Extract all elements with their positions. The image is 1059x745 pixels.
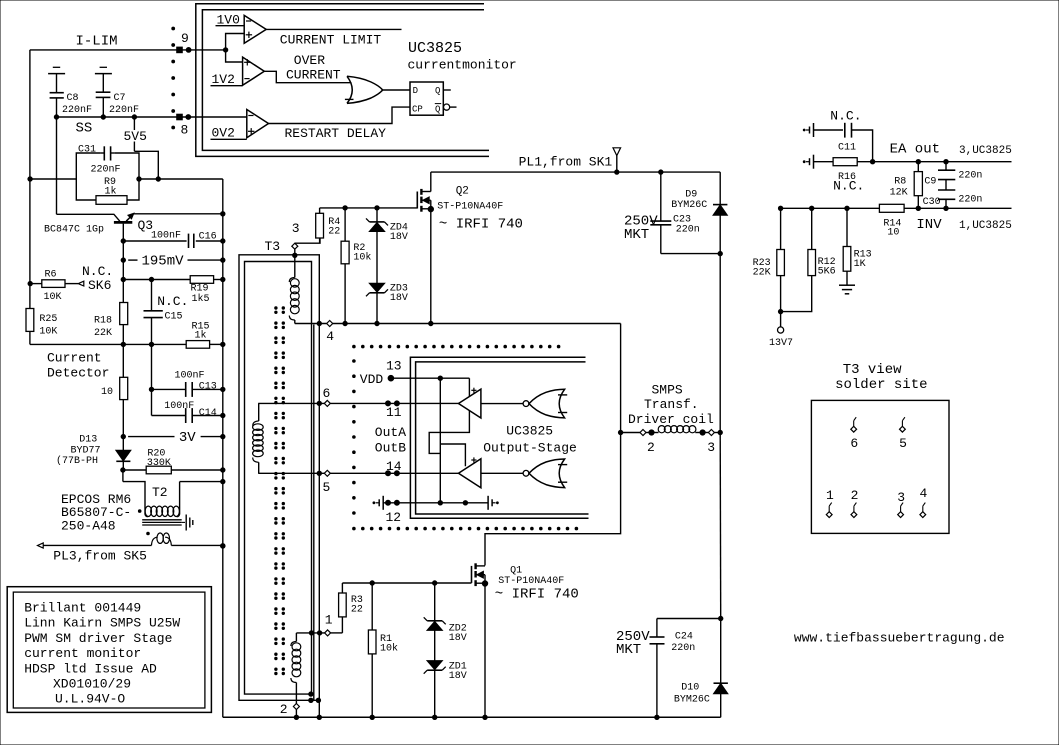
- svg-text:CP: CP: [412, 105, 423, 115]
- transistor Q3 BC847C: [114, 221, 132, 224]
- svg-text:C24: C24: [675, 632, 693, 643]
- svg-text:10k: 10k: [353, 252, 371, 264]
- resistor R15 row y=344: [30, 343, 186, 345]
- resistor R8: [914, 172, 922, 196]
- svg-text:R25: R25: [39, 314, 57, 325]
- svg-text:BYD77: BYD77: [71, 445, 101, 456]
- wire left bus x=222.8 vertical: [222, 179, 224, 717]
- svg-text:2: 2: [280, 702, 288, 717]
- resistor R20 row: [121, 468, 125, 472]
- svg-text:C9: C9: [924, 176, 936, 187]
- or gate U-current-monitor: [347, 76, 352, 103]
- svg-text:10: 10: [101, 387, 113, 398]
- svg-text:13: 13: [386, 359, 402, 374]
- svg-text:C14: C14: [199, 408, 217, 419]
- wire T3 inner return line: [313, 325, 315, 701]
- svg-text:Q: Q: [435, 86, 440, 96]
- T3 pin 1 row: [296, 632, 324, 634]
- svg-text:XD01010/29: XD01010/29: [53, 677, 131, 692]
- svg-text:250-A48: 250-A48: [61, 518, 116, 533]
- capacitor C30: [945, 180, 947, 190]
- resistor R23: [777, 250, 785, 276]
- svg-text:OutB: OutB: [375, 441, 406, 456]
- net 195mV row: [121, 258, 125, 262]
- wire C31 bus right segment: [139, 178, 223, 180]
- box UC3825 output-stage (double border, open right): [410, 357, 588, 518]
- svg-text:ST-P10NA40F: ST-P10NA40F: [437, 202, 503, 213]
- svg-text:18V: 18V: [390, 293, 408, 304]
- svg-text:0V2: 0V2: [212, 126, 235, 141]
- svg-text:12: 12: [386, 510, 402, 525]
- svg-text:~ IRFI 740: ~ IRFI 740: [495, 587, 579, 603]
- comparator 1V2 over-current: [243, 57, 265, 85]
- svg-text:Q2: Q2: [456, 186, 469, 198]
- capacitor C9: [945, 162, 947, 171]
- svg-text:T2: T2: [152, 485, 168, 500]
- resistor R2: [341, 241, 349, 264]
- transformer T2 polarity dots: [138, 510, 141, 513]
- resistor R9: [96, 196, 127, 205]
- zener diode ZD4: [376, 208, 378, 222]
- nor gate A: [523, 401, 529, 407]
- node T3 corner junction dots: [309, 692, 313, 696]
- T3 pin 5 row: [258, 472, 324, 474]
- svg-text:10K: 10K: [39, 326, 57, 337]
- net 3V row: [121, 434, 125, 438]
- svg-text:PWM SM driver Stage: PWM SM driver Stage: [24, 631, 172, 646]
- T3 bottom coil: [295, 633, 297, 642]
- svg-text:195mV: 195mV: [142, 254, 185, 270]
- svg-text:BC847C 1Gp: BC847C 1Gp: [44, 225, 104, 236]
- pin 11 connection dots: [386, 401, 391, 406]
- capacitor C7: [100, 66, 107, 68]
- svg-text:C8: C8: [67, 93, 79, 104]
- resistor R13: [843, 247, 851, 272]
- transformer T2 secondary winding: [152, 537, 158, 545]
- svg-text:1k5: 1k5: [192, 293, 210, 305]
- svg-text:18V: 18V: [449, 671, 467, 682]
- svg-text:R8: R8: [894, 176, 906, 187]
- svg-text:100nF: 100nF: [175, 370, 205, 381]
- svg-text:10: 10: [887, 228, 899, 239]
- pin 14 connection dots: [386, 471, 391, 476]
- svg-text:MKT: MKT: [624, 227, 649, 243]
- svg-text:Brillant 001449: Brillant 001449: [24, 601, 141, 616]
- svg-text:C7: C7: [114, 93, 126, 104]
- svg-text:Driver coil: Driver coil: [628, 412, 714, 427]
- T3 view pin 5: [902, 417, 905, 421]
- svg-text:D: D: [413, 86, 418, 96]
- capacitor C31 plates: [103, 146, 105, 160]
- svg-text:220n: 220n: [671, 643, 695, 654]
- terminal PL1 from SK1: [613, 148, 621, 156]
- svg-text:Q: Q: [435, 105, 440, 115]
- svg-text:22: 22: [328, 227, 340, 238]
- T3 winding pin 3: [292, 243, 298, 249]
- svg-text:5K6: 5K6: [818, 267, 836, 278]
- svg-text:SMPS: SMPS: [652, 382, 683, 397]
- svg-text:INV: INV: [916, 217, 942, 233]
- svg-text:OVER: OVER: [294, 53, 325, 68]
- svg-text:1,UC3825: 1,UC3825: [959, 220, 1012, 232]
- svg-text:D9: D9: [685, 189, 697, 200]
- svg-text:N.C.: N.C.: [830, 108, 861, 123]
- svg-text:PL1,from SK1: PL1,from SK1: [519, 154, 613, 169]
- svg-text:C15: C15: [165, 311, 183, 322]
- resistor R12: [808, 250, 816, 276]
- wire or-gate lower input stub: [345, 98, 354, 100]
- svg-text:6: 6: [850, 436, 858, 451]
- svg-text:18V: 18V: [390, 232, 408, 243]
- svg-text:22: 22: [351, 605, 363, 616]
- svg-text:220nF: 220nF: [109, 105, 139, 116]
- svg-text:Output-Stage: Output-Stage: [483, 441, 577, 456]
- pin VDD connection: [388, 375, 394, 381]
- svg-text:UC3825: UC3825: [408, 40, 462, 57]
- svg-text:4: 4: [920, 486, 928, 501]
- inductor SMPS driver coil: [618, 430, 622, 434]
- capacitor C13 row: [151, 344, 153, 389]
- svg-text:3: 3: [897, 490, 905, 505]
- svg-text:EA out: EA out: [890, 142, 940, 158]
- d-flipflop U-restart: [410, 82, 443, 115]
- svg-text:4: 4: [326, 329, 334, 344]
- zener diode ZD2: [434, 583, 436, 621]
- capacitor C16 row: [123, 240, 186, 242]
- wire C31 bus left segment: [30, 178, 76, 180]
- wire Q1 gate row: [342, 582, 471, 584]
- svg-text:CURRENT: CURRENT: [286, 68, 341, 83]
- connector pin 9 marker: [177, 47, 183, 53]
- capacitor C23: [660, 172, 662, 221]
- transformer T3 outer outline: [239, 255, 319, 701]
- resistor 10 (current sense): [120, 377, 128, 399]
- svg-text:220nF: 220nF: [91, 165, 121, 176]
- svg-text:VDD: VDD: [360, 372, 384, 387]
- svg-text:10k: 10k: [380, 643, 398, 655]
- resistor R25: [26, 309, 34, 332]
- terminal PL3 from SK5: [38, 543, 44, 548]
- svg-text:3V: 3V: [179, 430, 196, 446]
- svg-text:SS: SS: [76, 121, 93, 137]
- box UC3825 currentmonitor (double border, open right): [196, 4, 489, 157]
- dotted connector boundary line: [172, 27, 175, 30]
- wire Q3 emitter to bus: [134, 213, 223, 215]
- diode D9 BYM26C: [719, 172, 721, 205]
- svg-text:3: 3: [707, 440, 715, 455]
- resistor R1: [368, 630, 376, 654]
- diode D13 BYD77: [116, 450, 131, 461]
- svg-text:ST-P10NA40F: ST-P10NA40F: [498, 576, 564, 587]
- svg-text:OutA: OutA: [375, 425, 406, 440]
- svg-text:1k: 1k: [195, 329, 207, 341]
- svg-text:220nF: 220nF: [62, 105, 92, 116]
- parallel block C31 R9 outline: [76, 153, 101, 200]
- svg-text:SK6: SK6: [88, 278, 111, 293]
- svg-text:RESTART DELAY: RESTART DELAY: [285, 126, 387, 141]
- transformer T2 core: [142, 519, 182, 521]
- resistor R14: [879, 204, 904, 212]
- wire C23 bottom: [661, 253, 720, 255]
- resistor R6 and SK6 terminal: [28, 281, 32, 285]
- resistor R16 with N.C.: [813, 155, 815, 169]
- nor gate B: [523, 470, 529, 476]
- svg-text:UC3825: UC3825: [506, 424, 553, 439]
- svg-text:11: 11: [386, 405, 402, 420]
- svg-text:T3 view: T3 view: [843, 362, 902, 378]
- wire VDD row: [391, 377, 470, 379]
- wire pin4 row down to coil row: [620, 324, 622, 433]
- svg-text:22K: 22K: [94, 328, 112, 339]
- ground R13: [839, 284, 855, 286]
- svg-text:I-LIM: I-LIM: [76, 34, 118, 50]
- box T3 view: [811, 400, 949, 533]
- wire buffer B output to nor B: [481, 472, 523, 474]
- wire buffer A output to nor A: [481, 403, 523, 405]
- svg-text:U.L.94V-O: U.L.94V-O: [55, 692, 125, 707]
- svg-text:2: 2: [851, 488, 859, 503]
- T3 primary middle coil: [258, 403, 260, 421]
- svg-text:3: 3: [292, 221, 300, 236]
- svg-text:C11: C11: [838, 143, 856, 154]
- T3 winding top coil: [294, 255, 296, 277]
- T3 pin 4 row: [295, 323, 327, 325]
- svg-text:www.tiefbassuebertragung.de: www.tiefbassuebertragung.de: [794, 631, 1005, 646]
- svg-text:BYM26C: BYM26C: [674, 695, 710, 706]
- svg-text:Transf.: Transf.: [644, 397, 699, 412]
- zener diode ZD1: [427, 661, 442, 670]
- zener diode ZD3: [370, 283, 385, 292]
- svg-text:C30: C30: [923, 197, 941, 208]
- svg-text:10K: 10K: [44, 292, 62, 303]
- bubble flip-flop Q-bar output: [444, 104, 450, 110]
- svg-text:2: 2: [647, 440, 655, 455]
- svg-text:18V: 18V: [449, 633, 467, 644]
- svg-text:R18: R18: [94, 316, 112, 327]
- svg-text:PL3,from SK5: PL3,from SK5: [53, 549, 147, 564]
- transistor Q1 MOSFET: [471, 566, 473, 583]
- comparator 0V2 restart-delay: [247, 110, 269, 138]
- T3 view pin 6: [854, 417, 857, 421]
- dotted border output-stage block: [353, 345, 356, 348]
- svg-text:1K: 1K: [854, 259, 866, 270]
- wire 5V5 branch: [133, 117, 135, 130]
- wire PL1 top rail: [431, 171, 720, 173]
- resistor R18: [120, 303, 128, 325]
- T3 pin 2: [295, 694, 297, 703]
- svg-text:1: 1: [325, 613, 333, 628]
- svg-text:MKT: MKT: [616, 642, 641, 658]
- info box Brillant (double border): [7, 587, 211, 713]
- wire SS net (pin 8 row): [57, 116, 247, 118]
- svg-text:5: 5: [899, 436, 907, 451]
- svg-text:100nF: 100nF: [164, 401, 194, 412]
- svg-text:220n: 220n: [958, 170, 982, 181]
- wire comparator-2 output: [264, 71, 351, 82]
- svg-text:solder site: solder site: [835, 377, 927, 393]
- svg-text:CURRENT LIMIT: CURRENT LIMIT: [280, 32, 382, 47]
- wire T3 outer edge stub to rail: [318, 700, 320, 717]
- terminal 13V7: [778, 309, 782, 313]
- svg-text:1V2: 1V2: [212, 72, 235, 87]
- svg-text:C16: C16: [199, 232, 217, 243]
- svg-text:220n: 220n: [958, 194, 982, 205]
- svg-text:220n: 220n: [676, 225, 700, 236]
- svg-text:C31: C31: [78, 145, 96, 156]
- wire Q2 source to pin4 row: [430, 209, 432, 323]
- pin 12 ground row: [382, 496, 384, 510]
- wire Q3 collector from C8 column: [56, 117, 58, 214]
- svg-text:1k: 1k: [105, 186, 117, 198]
- svg-text:3,UC3825: 3,UC3825: [959, 145, 1012, 157]
- svg-text:currentmonitor: currentmonitor: [408, 57, 517, 72]
- capacitor C24: [656, 619, 658, 638]
- wire INV row: [781, 207, 1012, 209]
- node PL3 junction on bus: [221, 544, 225, 548]
- wire C24 top: [657, 618, 721, 620]
- diode D10 BYM26C: [720, 619, 722, 684]
- svg-text:6: 6: [323, 386, 331, 401]
- svg-text:C13: C13: [199, 381, 217, 392]
- svg-text:HDSP ltd Issue AD: HDSP ltd Issue AD: [24, 661, 157, 676]
- svg-text:~ IRFI 740: ~ IRFI 740: [439, 217, 523, 233]
- wire flip-flop CP input: [269, 107, 411, 123]
- svg-text:N.C.: N.C.: [157, 294, 188, 309]
- svg-text:current monitor: current monitor: [24, 646, 141, 661]
- svg-text:BYM26C: BYM26C: [671, 200, 707, 211]
- node I-LIM input bracket: [223, 48, 227, 52]
- wire comparator-1 output: [266, 28, 401, 30]
- svg-text:D10: D10: [681, 683, 699, 694]
- svg-text:R6: R6: [45, 270, 57, 281]
- svg-text:22K: 22K: [753, 268, 771, 279]
- svg-text:13V7: 13V7: [769, 338, 793, 349]
- resistor R3: [339, 593, 347, 617]
- wire coil left loop down to Q1 drain: [485, 433, 621, 566]
- wire right vertical coil row to D10: [719, 433, 722, 619]
- svg-text:100nF: 100nF: [151, 231, 181, 242]
- svg-text:(77B-PH: (77B-PH: [56, 455, 98, 467]
- capacitor C14 row: [151, 389, 153, 415]
- buffer B triangle: [459, 459, 481, 488]
- wire I-LIM net (pin 9 row) with left drop: [30, 49, 226, 51]
- svg-text:12K: 12K: [890, 188, 908, 199]
- wire right vertical to coil row: [719, 254, 721, 433]
- svg-text:5V5: 5V5: [124, 129, 147, 144]
- svg-text:Current: Current: [47, 351, 102, 366]
- dotted connector columns inside T3: [275, 307, 277, 309]
- svg-text:5: 5: [323, 480, 331, 495]
- svg-text:Detector: Detector: [47, 366, 109, 381]
- svg-text:N.C.: N.C.: [833, 179, 864, 194]
- wire EA out row: [857, 161, 1011, 163]
- resistor R4: [316, 213, 324, 238]
- svg-text:T3: T3: [265, 239, 281, 254]
- T3 pin 6 row: [258, 402, 324, 404]
- buffer A triangle: [459, 389, 481, 418]
- transformer T2: [122, 470, 124, 482]
- svg-text:330K: 330K: [147, 458, 171, 469]
- wire flip-flop Q output stub: [443, 89, 451, 91]
- svg-text:N.C.: N.C.: [82, 264, 113, 279]
- wire crossover loop: [429, 378, 469, 453]
- wire bottom rail: [223, 716, 721, 718]
- svg-text:D13: D13: [79, 435, 97, 446]
- wire Q1 source to rail: [484, 584, 486, 718]
- wire Q2 gate row: [320, 207, 418, 209]
- svg-text:Linn Kairn SMPS U25W: Linn Kairn SMPS U25W: [24, 616, 180, 631]
- transistor Q2 MOSFET: [416, 192, 418, 209]
- svg-text:1: 1: [826, 488, 834, 503]
- svg-text:9: 9: [181, 31, 189, 46]
- wire or-gate output to flip-flop D: [383, 89, 410, 91]
- connector pin 8 marker: [177, 114, 183, 120]
- capacitor C8: [53, 66, 60, 68]
- transformer T3 inner outline: [245, 262, 312, 695]
- resistor R19 row: [123, 279, 190, 281]
- svg-text:8: 8: [181, 123, 189, 138]
